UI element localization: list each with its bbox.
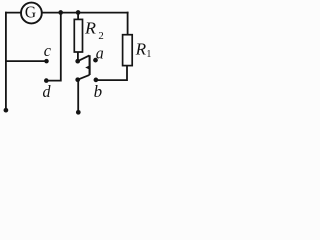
switch crossbar: [89, 55, 91, 75]
galvanometer G: [21, 2, 42, 23]
label R1: [135, 40, 152, 61]
switch handle knob: [85, 65, 90, 70]
contact b dot: [94, 78, 99, 83]
wire R2 top stub: [77, 13, 79, 20]
label R2: [84, 18, 104, 42]
node junction dot1 (d branch): [58, 10, 63, 15]
contact d dot: [44, 78, 49, 83]
resistor R2 body: [74, 19, 82, 52]
wire R1 top: corner down to resistor: [127, 13, 129, 35]
svg-text:R: R: [135, 40, 147, 59]
switch blade lower: [78, 75, 90, 80]
svg-text:G: G: [25, 2, 36, 21]
contact a dot: [93, 58, 98, 63]
terminal dot bottom-left: [4, 108, 9, 113]
terminal dot bottom-middle: [76, 110, 81, 115]
wire pole P2 down to bottom terminal: [77, 80, 79, 111]
svg-text:2: 2: [98, 30, 103, 42]
switch blade upper: [78, 55, 90, 61]
svg-text:R: R: [84, 18, 96, 37]
contact c dot: [44, 59, 49, 64]
wire d branch: node on top wire down then left to contact d: [47, 13, 61, 81]
wire c: left rail to contact c: [6, 60, 46, 62]
svg-text:d: d: [43, 82, 51, 101]
svg-text:b: b: [94, 82, 103, 101]
wire top: galvanometer to top-right corner: [42, 12, 128, 14]
node junction dot2 (R2 top): [76, 10, 81, 15]
svg-text:1: 1: [146, 49, 151, 60]
switch pole P2 dot: [75, 77, 80, 82]
wire left vertical: [5, 13, 7, 110]
switch pole P1 dot: [75, 59, 80, 64]
resistor R1 body: [123, 35, 133, 66]
svg-text:c: c: [44, 41, 52, 60]
svg-text:a: a: [96, 43, 104, 62]
wire top-left: corner to galvanometer: [6, 12, 21, 14]
wire R2 bottom stub to pole P1: [77, 52, 79, 61]
wire b: contact b right then up to R1 bottom: [97, 66, 128, 80]
